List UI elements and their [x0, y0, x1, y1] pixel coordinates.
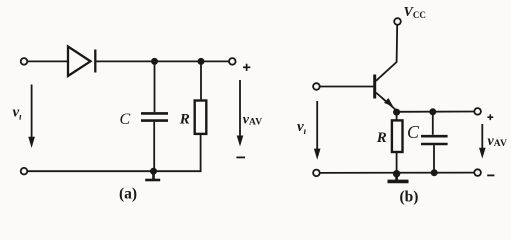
transistor Q (b) — [375, 75, 397, 111]
resistor R (a) — [195, 101, 207, 134]
terminal: Vcc (b) — [394, 18, 401, 25]
wire: C branch upper (a) — [154, 61, 156, 112]
terminal: bottom left (b) — [313, 170, 320, 177]
wire: C branch upper (b) — [432, 112, 434, 135]
node: capacitor bottom junction (b) — [431, 169, 438, 176]
node: capacitor tap (b) — [429, 108, 436, 115]
diode D (a) — [68, 47, 95, 77]
label: minus polarity (a) — [236, 156, 245, 158]
svg-text:C: C — [120, 111, 131, 128]
wire: base input (b) — [320, 86, 374, 88]
node: ground junction (a) — [150, 168, 157, 175]
ground (a) — [145, 171, 160, 180]
node: resistor tap on top rail (a) — [198, 58, 205, 65]
wire: R branch upper (a) — [200, 61, 202, 100]
svg-text:C: C — [407, 122, 420, 142]
terminal: output positive (a) — [229, 58, 236, 65]
wire: C branch lower (b) — [433, 145, 435, 173]
ground (b) — [388, 174, 409, 182]
node: capacitor tap on top rail (a) — [151, 58, 158, 65]
wire: C branch lower (a) — [153, 122, 155, 171]
node: ground junction (b) — [393, 170, 400, 177]
arrow: v_AV direction (b) — [479, 124, 486, 159]
arrow: v_i direction (a) — [28, 85, 35, 149]
terminal: output positive (b) — [474, 108, 481, 115]
wire: input terminal to diode anode (a) — [27, 60, 68, 62]
wire: diode cathode to output terminal (a) — [95, 60, 229, 62]
wire: R branch lower (a) — [200, 134, 202, 171]
label: + polarity (b) — [487, 114, 493, 120]
wire: bottom rail (b) — [320, 172, 474, 174]
wire: R branch upper (b) — [396, 112, 398, 120]
terminal: bottom right negative (b) — [474, 169, 481, 176]
arrow: v_i direction (b) — [314, 101, 321, 160]
label: + polarity (a) — [243, 64, 250, 71]
node: emitter junction (b) — [393, 109, 400, 116]
wire: R branch lower (b) — [396, 152, 398, 174]
capacitor C (b) — [421, 136, 448, 144]
terminal: input top (a) — [21, 58, 28, 65]
label: minus polarity (b) — [487, 174, 494, 176]
wire: collector to Vcc (b) — [376, 25, 397, 81]
wire: bottom rail (a) — [27, 170, 201, 172]
terminal: input (b) — [313, 83, 320, 90]
capacitor C (a) — [141, 113, 168, 120]
svg-text:R: R — [179, 112, 190, 128]
svg-text:(a): (a) — [119, 186, 137, 203]
resistor R (b) — [392, 120, 403, 152]
arrow: v_AV direction (a) — [237, 80, 244, 147]
wire: emitter node to output terminal (b) — [397, 111, 475, 113]
svg-text:R: R — [376, 130, 387, 146]
terminal: input bottom (a) — [21, 168, 28, 175]
svg-text:(b): (b) — [400, 189, 419, 206]
